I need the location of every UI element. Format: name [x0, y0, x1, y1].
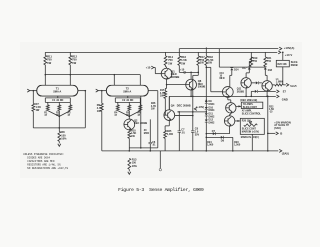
label R14	[168, 55, 173, 65]
svg-text:Q4: Q4	[171, 104, 175, 108]
label D11	[209, 113, 216, 119]
transistor Q4	[164, 110, 175, 121]
label T1	[53, 87, 61, 94]
junction input 1	[33, 90, 35, 92]
label box1	[243, 103, 258, 109]
wire stub R21 top	[264, 52, 266, 57]
junction Q5 em	[245, 96, 247, 98]
transistor Q8	[186, 79, 197, 90]
diode D11	[205, 113, 208, 116]
svg-text:3639B: 3639B	[237, 90, 244, 93]
resistor R8	[58, 131, 61, 141]
wire R17 down	[192, 65, 199, 130]
notes block	[23, 153, 68, 170]
wire +10V rail A (y=47)	[179, 48, 278, 50]
diode D8	[221, 136, 224, 139]
svg-text:Figure 5-3 Sense Amplifier, G: Figure 5-3 Sense Amplifier, G009	[118, 187, 204, 193]
label C5	[144, 129, 150, 135]
label box2a	[242, 121, 252, 123]
svg-text:D662: D662	[209, 122, 216, 125]
label R22col	[269, 106, 274, 113]
svg-text:R22: R22	[269, 106, 274, 108]
svg-text:1W: 1W	[168, 61, 172, 65]
wire R22 bottom	[282, 67, 284, 84]
label L1	[276, 79, 297, 88]
label R24	[207, 141, 214, 147]
label C6	[152, 141, 156, 147]
wire stub R16 top	[178, 49, 180, 56]
wire Q4 collector	[168, 96, 170, 109]
transistor Q10	[226, 103, 236, 114]
junction Q1 emitter	[166, 84, 168, 86]
pot box R22	[276, 60, 289, 67]
wire R5 stub	[128, 102, 130, 105]
wire stub R12 top	[69, 52, 71, 55]
wire stub R19 top	[250, 52, 252, 57]
resistor R6	[139, 105, 142, 111]
testpoint +10	[180, 69, 186, 74]
wire drop to T2 pin2	[139, 75, 141, 86]
resistor R3	[69, 105, 72, 111]
junction R22	[282, 52, 284, 54]
svg-text:1W: 1W	[200, 61, 204, 65]
wire y125.5	[165, 125, 169, 127]
label x157.5	[151, 102, 156, 110]
transistor Q6	[262, 81, 272, 92]
wire input1 to T1	[33, 90, 36, 92]
diode D17	[248, 67, 251, 70]
wire drop x157.5	[157, 91, 159, 148]
wire L1 out	[283, 84, 286, 86]
svg-text:+10V(A): +10V(A)	[284, 46, 295, 50]
svg-text:D17: D17	[242, 68, 247, 70]
terminal R13 arrow	[128, 169, 131, 174]
wire d2	[205, 110, 207, 114]
resistor R21	[264, 57, 267, 67]
terminal y96 arrow	[276, 95, 279, 98]
junction mid rail x70	[70, 74, 72, 76]
wire Q4 base right	[175, 115, 194, 117]
svg-text:1W: 1W	[47, 61, 51, 65]
diode D14	[230, 68, 233, 71]
wire R3 diag	[59, 111, 70, 117]
junction input 2	[101, 90, 103, 92]
label R12	[72, 55, 77, 65]
inductor L1	[272, 84, 283, 86]
label D7	[212, 130, 216, 133]
wire box2 to rail2	[251, 134, 253, 151]
svg-text:1,000: 1,000	[207, 144, 214, 147]
label C8	[195, 128, 200, 137]
wire Q1 down	[165, 85, 166, 91]
junction mid rail x114	[114, 74, 116, 76]
label R22	[278, 62, 299, 67]
resistor R1	[46, 105, 49, 111]
label R2	[56, 113, 60, 118]
wire chain bottom	[206, 122, 208, 152]
wire Q2 emitter	[128, 129, 130, 131]
terminal L1 arrow	[286, 83, 289, 86]
label box2c	[241, 131, 259, 140]
label R5	[126, 113, 130, 118]
svg-text:KNOB: KNOB	[291, 65, 298, 67]
wire R3 stub	[69, 102, 71, 105]
wire Q10 bottom	[230, 113, 231, 116]
label T2	[123, 87, 131, 94]
label R11	[47, 55, 52, 65]
svg-text:(+10V): (+10V)	[196, 105, 204, 109]
wire R5 down	[128, 111, 130, 119]
label R13	[132, 158, 138, 168]
label C1	[52, 99, 64, 102]
terminal strobe arrow	[268, 132, 283, 136]
terminal E7 arrow	[276, 90, 279, 93]
label Q1	[171, 69, 180, 79]
label R9	[97, 103, 103, 113]
transformer T2	[106, 85, 148, 96]
label box2b	[242, 129, 257, 131]
resistor R18	[205, 56, 208, 66]
potentiometer R20	[244, 121, 257, 126]
wire Q1 to Q8 base	[167, 84, 186, 86]
wire R25 down	[164, 126, 166, 131]
wire stub R11 top	[44, 52, 46, 55]
svg-text:1,500: 1,500	[234, 144, 241, 147]
wire mid rail	[45, 74, 140, 76]
wire x267.5	[267, 96, 269, 151]
diode D19	[251, 81, 262, 84]
label D14	[234, 69, 239, 72]
svg-text:SMA-A: SMA-A	[123, 91, 131, 94]
label below box1	[242, 110, 262, 116]
transistor Q11	[222, 87, 233, 98]
transistor Q2	[124, 119, 135, 130]
label D17	[242, 68, 247, 70]
label D12	[209, 119, 216, 125]
resistor R14	[164, 56, 167, 66]
diode D18	[264, 67, 267, 70]
svg-text:1W: 1W	[181, 61, 185, 65]
svg-text:1.5MH: 1.5MH	[276, 82, 283, 84]
wire R18 down	[205, 65, 207, 100]
svg-text:SMA-A: SMA-A	[53, 91, 61, 94]
svg-text:SL1/5: SL1/5	[290, 86, 297, 88]
svg-text:SLICE CONT: SLICE CONT	[242, 129, 257, 131]
svg-text:C1 .01 MF: C1 .01 MF	[52, 99, 64, 102]
wire R2 down	[58, 111, 60, 132]
svg-text:C2 .01 MF: C2 .01 MF	[122, 99, 134, 102]
svg-text:3009B: 3009B	[171, 75, 180, 79]
wire +10 mid	[177, 111, 207, 113]
resistor R17	[197, 56, 200, 66]
svg-text:+10: +10	[146, 65, 151, 69]
svg-text:GND: GND	[282, 98, 288, 102]
svg-text:B: B	[280, 132, 282, 136]
label R3	[68, 113, 72, 118]
resistor R16	[178, 56, 181, 66]
wire R14 to Q1	[166, 65, 167, 68]
svg-text:1W: 1W	[208, 61, 212, 65]
svg-text:1,000: 1,000	[167, 133, 174, 136]
wire Q4 emitter	[168, 121, 170, 126]
svg-text:10%: 10%	[132, 164, 138, 168]
wire R1 diag	[48, 111, 60, 117]
terminal +10V arrow mid	[194, 105, 204, 111]
wire drop x229	[231, 66, 233, 69]
wire Q6 emitter	[266, 91, 268, 97]
terminal +10V A arrow	[279, 47, 282, 50]
wire +10V rail B (y=51.5)	[45, 51, 277, 53]
label R6	[138, 113, 142, 118]
svg-text:D14: D14	[234, 69, 239, 72]
svg-text:35V: 35V	[195, 134, 200, 137]
wire R4 stub	[117, 102, 119, 105]
label D9	[209, 100, 216, 106]
wire R12 to T1	[69, 65, 71, 86]
wire drop to T2 pin1	[113, 75, 115, 86]
resistor R11	[44, 55, 47, 65]
wire D17 to Q5	[246, 57, 251, 78]
label C10	[220, 73, 225, 80]
resistor R15	[164, 91, 167, 99]
label R23	[234, 141, 241, 147]
label R10	[131, 130, 136, 138]
wire input2 to T2	[102, 90, 107, 92]
svg-text:MFD: MFD	[220, 78, 225, 80]
wire D14 to Q11	[230, 70, 232, 86]
wire R16 to Q8	[179, 65, 198, 79]
label R19	[253, 57, 258, 63]
svg-text:MARGIN (+10V): MARGIN (+10V)	[242, 131, 259, 134]
label R15	[160, 89, 165, 97]
svg-text:SLICE: SLICE	[291, 62, 298, 64]
label R4	[114, 112, 118, 118]
wire Q11 bottom	[228, 97, 231, 102]
wire y133.3	[206, 133, 229, 135]
label Q4	[171, 104, 191, 108]
label R1	[44, 113, 48, 118]
callout box1	[241, 102, 262, 108]
label +10V A	[284, 46, 295, 50]
transistor Q1	[161, 68, 172, 79]
svg-text:SLICE CONTROL: SLICE CONTROL	[242, 113, 262, 115]
wire T1 right	[78, 90, 85, 92]
junction T1 right	[85, 90, 87, 92]
wire T1 bottom box	[45, 96, 70, 102]
label R16	[181, 55, 187, 65]
wire R4 diag	[118, 111, 130, 117]
label R18	[208, 55, 214, 65]
wire R25 to rail2	[164, 138, 166, 151]
transistor Q12	[224, 116, 234, 127]
transistor Q5	[241, 78, 251, 89]
label R21	[267, 57, 272, 63]
svg-text:MARG IN +10(C): MARG IN +10(C)	[241, 136, 259, 139]
wire y147.5	[129, 147, 158, 149]
svg-text:SLICE CONT: SLICE CONT	[243, 107, 258, 109]
diode D20	[251, 90, 275, 93]
svg-text:(SA5): (SA5)	[282, 152, 289, 156]
wire D18 to Q6	[265, 69, 267, 80]
terminal R8 arrow	[58, 141, 61, 146]
svg-text:1W: 1W	[72, 61, 76, 65]
wire rail2	[102, 150, 278, 152]
label C2	[122, 99, 134, 102]
diode D9	[205, 101, 208, 104]
svg-text:3009B: 3009B	[198, 85, 206, 89]
resistor R25	[164, 130, 167, 138]
junction x267.5a	[267, 96, 269, 152]
wire drop x85	[84, 91, 86, 128]
terminal x160 stub	[159, 151, 161, 171]
svg-text:750: 750	[253, 60, 258, 63]
terminal input 2 arrow	[96, 89, 102, 92]
svg-text:D18: D18	[268, 70, 273, 72]
wire Q5 emitter	[245, 88, 247, 96]
svg-text:R26 10K: R26 10K	[278, 64, 288, 66]
wire E to y133.3	[229, 126, 231, 134]
label R25	[167, 130, 174, 136]
wire subrail y66	[219, 66, 265, 68]
wire drop x101.5	[101, 91, 103, 151]
junction rail1 x59	[59, 127, 61, 129]
svg-text:MFD: MFD	[144, 132, 150, 135]
svg-text:1W: 1W	[36, 108, 40, 112]
svg-text:1W: 1W	[97, 109, 101, 113]
junction converge2	[129, 116, 131, 118]
capacitor C7	[178, 112, 182, 151]
wire Q8 emitter	[190, 90, 192, 96]
junction y96 Q8	[190, 96, 192, 98]
wire rail1	[33, 127, 85, 129]
wire x232.5 to rail2	[232, 137, 234, 151]
label Q10	[240, 99, 257, 102]
diode D12	[205, 119, 208, 122]
wire left drop x33	[32, 91, 34, 128]
wire stub R14 top	[165, 52, 167, 56]
wire y137	[206, 136, 233, 138]
wire R6 stub	[139, 102, 141, 105]
wire stub R17 top	[197, 52, 199, 56]
terminal +10V B arrow	[278, 51, 281, 54]
label D10	[209, 106, 216, 112]
label rail2	[282, 152, 289, 156]
terminal rail2 arrow	[279, 149, 282, 152]
wire Q11 base	[206, 67, 223, 92]
label Q11	[237, 87, 244, 93]
terminal input 1 arrow	[27, 89, 33, 92]
wire d3	[205, 116, 207, 120]
junction mid rail x45	[45, 74, 47, 76]
resistor R13	[128, 158, 131, 169]
wire Q1 emitter	[166, 79, 168, 85]
wire stub x219	[218, 49, 220, 68]
resistor R12	[69, 55, 72, 65]
junction converge1	[59, 116, 61, 118]
wire R1 stub	[47, 102, 49, 105]
capacitor C6	[149, 119, 153, 151]
wire Q12 to box2	[235, 120, 241, 122]
wire T2 bottom box	[115, 96, 140, 102]
svg-text:750: 750	[267, 60, 272, 63]
label +10V B	[285, 53, 293, 57]
label D18	[268, 70, 273, 72]
label strobe	[274, 121, 291, 130]
svg-text:(SA5): (SA5)	[274, 127, 281, 130]
wire D20 riser	[251, 91, 253, 97]
wire R10 to rail2	[128, 138, 130, 151]
label D8	[221, 140, 225, 143]
wire R6 diag	[129, 111, 140, 117]
junction rail2 x129	[129, 150, 131, 152]
wire T2 right	[148, 90, 158, 92]
wire R22 top	[282, 52, 284, 60]
resistor R2	[58, 105, 61, 111]
wire y96 bus	[169, 96, 275, 109]
diode D7	[213, 132, 216, 135]
wire R11 to T1	[44, 65, 46, 86]
wire R15 to Q4	[164, 98, 165, 115]
resistor R9	[100, 103, 103, 111]
resistor R10	[128, 130, 131, 138]
terminal +10 arrow	[146, 65, 154, 69]
label C7	[181, 129, 185, 135]
transformer T1	[37, 85, 78, 96]
wire stub R18 top	[205, 47, 207, 56]
svg-text:+10 V: +10 V	[285, 53, 293, 57]
label E7 GND	[282, 90, 288, 102]
svg-text:+10: +10	[180, 69, 185, 72]
capacitor C8	[191, 130, 195, 151]
label R8	[61, 130, 67, 140]
wire R2 stub	[58, 102, 60, 105]
svg-text:DEC 3009B: DEC 3009B	[177, 104, 191, 108]
resistor R5	[128, 105, 131, 111]
diode D10	[205, 107, 208, 110]
resistor R7	[32, 103, 35, 111]
svg-text:TO AMPL: TO AMPL	[243, 103, 254, 106]
label Q8	[198, 79, 206, 89]
label Q2	[134, 119, 147, 125]
label R17	[200, 55, 205, 65]
label R7	[36, 102, 42, 112]
svg-text:AT AMPL: AT AMPL	[242, 110, 253, 113]
wire +10 to Q1 base	[154, 68, 161, 74]
callout box2	[240, 118, 264, 134]
wire drop x141	[140, 96, 142, 148]
resistor R19	[250, 57, 253, 67]
svg-text:1.5K: 1.5K	[269, 109, 274, 111]
resistor R4	[116, 105, 119, 111]
svg-text:NO DESIGNATIONS ARE +10V,TG: NO DESIGNATIONS ARE +10V,TG	[27, 167, 68, 170]
junction chain top	[206, 100, 208, 102]
wire Q10 to box1	[236, 105, 242, 107]
wire d1	[205, 104, 207, 108]
caption	[118, 187, 204, 193]
svg-text:10%: 10%	[61, 137, 67, 141]
